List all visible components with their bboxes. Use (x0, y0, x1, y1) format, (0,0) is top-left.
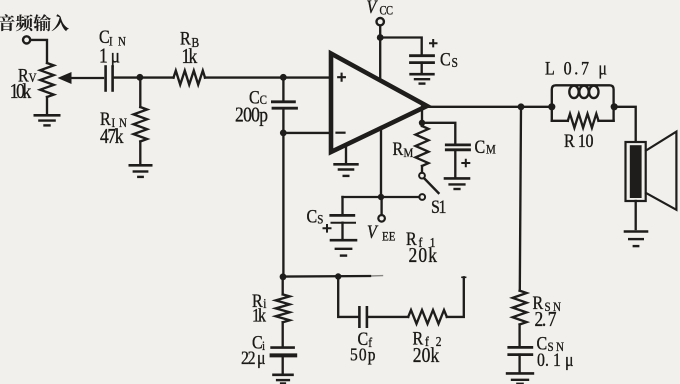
svg-text:10k: 10k (10, 81, 32, 104)
capacitor CM (422, 123, 455, 143)
junction L/R left (548, 103, 555, 110)
capacitor CS (supply bypass, top) (411, 54, 434, 57)
ground (op-amp) (335, 163, 358, 166)
wire pot bottom to ground (46, 97, 48, 115)
wire RB to op-amp + input (205, 76, 330, 78)
wire down to Cf (338, 277, 357, 317)
svg-text:M: M (486, 142, 496, 157)
junction output/RSN (518, 103, 525, 110)
svg-text:2. 7: 2. 7 (535, 309, 557, 332)
resistor RIN 47k (139, 78, 141, 107)
svg-text:CC: CC (380, 5, 394, 18)
ground (CM) (445, 177, 469, 180)
wire Rf2 up stub (447, 277, 464, 317)
svg-text:200p: 200p (235, 104, 268, 127)
capacitor CS (bottom bypass) (341, 197, 343, 214)
inductor L 0.7u with resistor R 10 in parallel (552, 85, 614, 121)
VCC terminal (367, 0, 394, 18)
ground (CSN) (507, 372, 533, 375)
potentiometer RV 10k (40, 63, 54, 97)
VEE rail wire (343, 196, 420, 198)
svg-text:S: S (452, 55, 458, 70)
ground (CS top) (411, 73, 434, 76)
wire to speaker (614, 107, 636, 141)
resistor RB 1k (143, 76, 174, 78)
pot wiper arrow (70, 77, 103, 79)
junction L/R right (611, 103, 618, 110)
Rf1 label (406, 228, 437, 268)
capacitor CSN 0.1u (509, 346, 532, 349)
svg-text:1k: 1k (252, 304, 266, 326)
svg-text:20k: 20k (413, 345, 440, 368)
wire to CS top (380, 38, 422, 55)
wire CIN to node A (114, 76, 140, 78)
svg-text:22 μ: 22 μ (241, 348, 266, 368)
resistor RSN 2.7 (520, 107, 521, 291)
node A junction (137, 74, 144, 81)
ground (Ci) (274, 373, 293, 376)
capacitor Ci 22u (272, 346, 294, 349)
junction VEE rail (378, 194, 384, 200)
ground (RIN) (130, 164, 151, 167)
op-amp ground pin (345, 146, 347, 163)
svg-text:M: M (404, 145, 414, 160)
VEE terminal (380, 199, 382, 215)
ground (speaker) (625, 230, 647, 233)
svg-text:C: C (475, 136, 486, 158)
wire Cf to Rf2 (369, 316, 409, 318)
svg-text:20k: 20k (409, 245, 438, 268)
svg-text:C: C (307, 205, 318, 227)
op-amp + marker (338, 74, 345, 81)
wire input to pot top (30, 40, 47, 63)
label 音频输入 (audio input) (0, 14, 69, 31)
op-amp - marker (337, 132, 345, 134)
svg-text:S1: S1 (431, 196, 447, 218)
op-amp VEE pin wire (380, 129, 382, 197)
input terminal circle (23, 36, 30, 43)
resistor Ri 1k (282, 277, 284, 294)
op-amp U1 triangle (331, 54, 427, 153)
svg-text:C: C (440, 48, 451, 70)
svg-text:EE: EE (382, 229, 396, 244)
svg-text:1 μ: 1 μ (99, 45, 120, 68)
ground (CS bottom) (331, 239, 356, 242)
junction feedback node (280, 273, 287, 280)
feedback wire (fades out in scan) (283, 275, 370, 278)
wire CC down to feedback node (282, 108, 284, 277)
capacitor CC 200p (282, 78, 284, 101)
capacitor CIN 1u (104, 67, 107, 91)
speaker LS (626, 142, 646, 201)
svg-text:50p: 50p (350, 344, 376, 364)
switch S1 (419, 173, 425, 179)
svg-text:1k: 1k (182, 46, 198, 69)
svg-text:R: R (393, 138, 404, 160)
wire speaker to ground (635, 201, 637, 229)
svg-text:S: S (317, 212, 323, 227)
wire to op-amp - input (283, 132, 330, 134)
junction at minus input (280, 130, 287, 137)
output wire (427, 106, 552, 108)
ground (pot) (35, 114, 59, 117)
resistor Rf2 20k (408, 310, 447, 324)
resistor RM (mute) (421, 107, 423, 126)
junction Cf branch (335, 273, 341, 279)
capacitor Cf 50p (358, 307, 361, 326)
svg-text:R 10: R 10 (564, 130, 594, 152)
coil loops of L (569, 86, 578, 98)
node B junction (CC tap) (280, 74, 287, 81)
wire VCC to op-amp V+ pin (379, 26, 381, 80)
svg-text:0. 1 μ: 0. 1 μ (537, 350, 574, 370)
junction VCC/CS (377, 34, 384, 41)
svg-text:47k: 47k (100, 126, 124, 149)
